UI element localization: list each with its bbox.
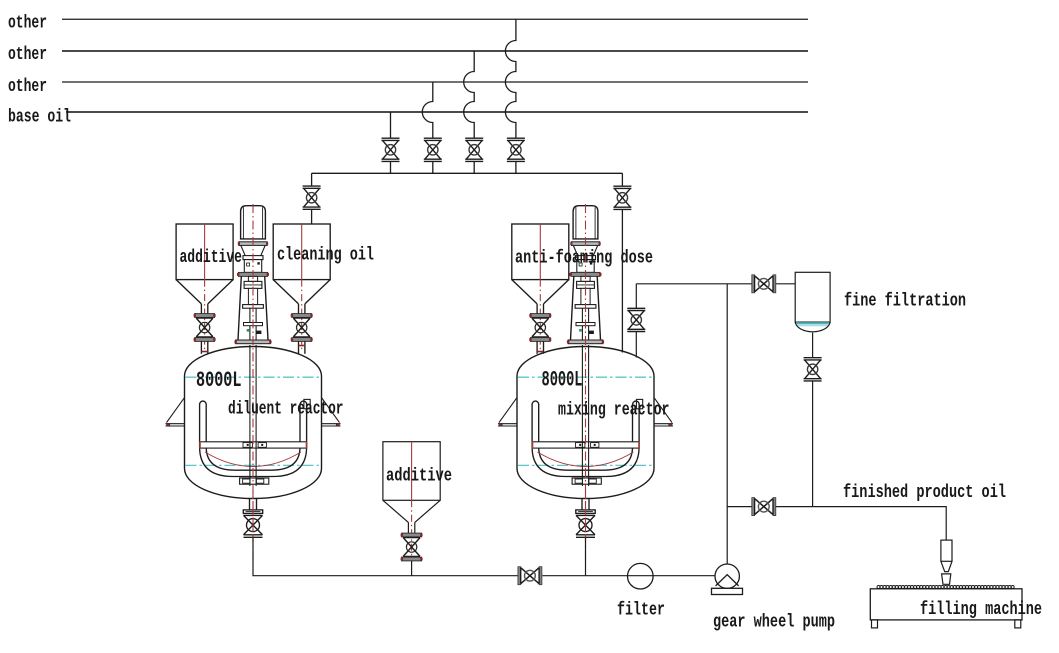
bottle row on filling machine [877,586,1014,589]
svg-text:gear wheel pump: gear wheel pump [713,612,835,633]
feed drop pipe 1 with crossover hops [390,112,392,173]
label additive (left hopper) [180,247,243,268]
svg-text:mixing reactor: mixing reactor [558,400,670,421]
label other 2 [8,44,47,65]
feed valve 3 [465,138,483,161]
label other 1 [8,13,47,34]
svg-text:other: other [8,44,47,65]
anti-foaming dose hopper [512,224,569,354]
additive hopper outlet stub into R1 dome [201,351,207,353]
gear wheel pump [712,564,743,595]
label 8000L (R2) [542,367,583,392]
label diluent reactor [228,399,344,420]
fine filtration outlet wire [812,333,814,507]
cleaning oil hopper [273,224,330,354]
svg-text:cleaning oil: cleaning oil [277,245,374,266]
wire from feed line down into mixing reactor [635,284,637,358]
pump riser wire [726,284,728,564]
label anti-foaming dose [515,248,653,269]
label additive (middle hopper) [386,466,452,487]
cleaning oil hopper outlet stub into R1 dome [299,345,305,347]
finished product oil wire [727,507,946,540]
supply line 3 (other) [62,81,808,83]
anti-foaming hopper outlet stub into R2 dome [537,351,543,353]
cleaning oil branch valve [303,186,321,209]
mixing reactor outlet drop wire [585,537,587,575]
reactor return valve [627,308,645,331]
feed valve 4 [507,138,525,161]
filling head [941,540,952,584]
mixing reactor vessel R2 [498,345,673,537]
svg-text:filling machine: filling machine [920,599,1042,620]
svg-text:additive: additive [386,466,452,487]
svg-text:diluent reactor: diluent reactor [228,399,344,420]
label finished product oil [843,482,1006,503]
svg-text:8000L: 8000L [196,368,242,393]
svg-text:finished product oil: finished product oil [843,482,1006,503]
label cleaning oil [277,245,374,266]
label 8000L (R1) [196,368,242,393]
feed drop pipe 2 with crossover hops [422,82,433,173]
label filter [617,600,665,621]
svg-text:other: other [8,76,47,97]
transfer valve [518,567,542,585]
svg-text:fine filtration: fine filtration [844,291,966,312]
label filling machine [920,599,1042,620]
branch wire to cleaning oil hopper [311,173,313,224]
svg-text:additive: additive [180,247,243,268]
label other 3 [8,76,47,97]
agitator motor M2 [567,204,604,560]
svg-text:8000L: 8000L [542,367,583,392]
label mixing reactor [558,400,670,421]
filling machine table [870,589,1022,628]
supply line 1 (other) [62,18,808,20]
fine filtration feed wire [636,283,795,285]
mixing reactor feed valve [613,186,631,209]
supply line 2 (other) [62,50,808,52]
fine filtration vessel [795,272,830,332]
svg-text:anti-foaming dose: anti-foaming dose [515,248,653,269]
svg-text:filter: filter [617,600,665,621]
supply line 4 (base oil) [66,111,808,113]
filter circle [628,563,654,589]
fine filtration outlet valve [804,358,822,381]
feed valve 1 [382,138,400,161]
label gear wheel pump [713,612,835,633]
middle additive hopper valve [401,533,423,561]
feed drop pipe 3 with crossover hops [464,51,475,173]
middle additive hopper [383,442,440,560]
diluent reactor vessel R1 [166,345,341,537]
label base oil [8,107,71,128]
middle hopper outlet wire [411,561,413,576]
feed drop pipe 4 with crossover hops [505,19,516,173]
feed valve 2 [424,138,442,161]
finished product oil valve [752,498,776,516]
svg-text:other: other [8,13,47,34]
distribution header wire [312,172,623,174]
additive hopper (left) [176,224,233,354]
branch wire to mixing reactor [621,173,623,352]
label fine filtration [844,291,966,312]
reactor outlet bottom wire [253,537,715,575]
fine filtration inlet valve [752,275,776,293]
svg-text:base oil: base oil [8,107,71,128]
agitator motor M1 [234,204,271,560]
